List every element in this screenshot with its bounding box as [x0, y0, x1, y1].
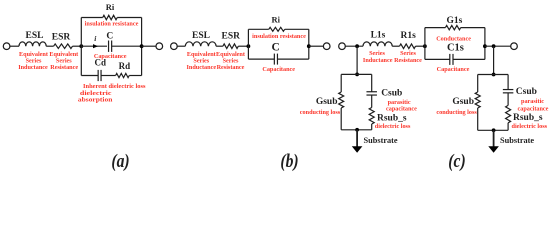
wire — [453, 58, 485, 60]
svg-text:i: i — [94, 34, 97, 43]
resistor G1s (c) — [445, 16, 462, 30]
capacitor C (a) — [106, 32, 113, 52]
annotation: conducting loss (left) — [300, 109, 341, 116]
caption (a) — [111, 149, 129, 171]
wire: right rail (a) — [141, 18, 143, 76]
svg-text:Substrate: Substrate — [364, 136, 398, 145]
wire — [507, 75, 509, 90]
svg-text:ESR: ESR — [52, 32, 71, 42]
junction node (c) box output — [483, 44, 487, 48]
wire: right rail (c) — [484, 28, 486, 60]
junction node: shunt tap left (c) — [355, 44, 359, 48]
svg-text:(c): (c) — [448, 149, 465, 171]
wire: top branch right (b) — [285, 28, 309, 30]
wire: top branch left (a) — [81, 17, 102, 19]
svg-text:L1s: L1s — [371, 31, 386, 41]
wire: shunt feed left (c) — [356, 46, 358, 74]
junction node (a) input — [79, 44, 83, 48]
inductor ESL (a) — [19, 31, 46, 46]
svg-text:Cd: Cd — [95, 58, 107, 68]
annotation: Capacitance (a) — [94, 53, 127, 60]
resistor Gsub left (c) — [316, 92, 344, 108]
annotation: Conductance (c) — [436, 36, 471, 43]
annotation: Equivalent Series Resistance (a) — [49, 51, 79, 71]
annotation: insulation resistance (a) — [85, 20, 139, 27]
resistor ESR (a) — [52, 32, 73, 48]
svg-text:Gsub: Gsub — [452, 97, 474, 107]
annotation: conducting loss (right) — [436, 109, 477, 116]
terminal: circuit (a) left port — [3, 43, 10, 50]
wire: shunt bottom edge left (c) — [341, 129, 372, 131]
wire — [507, 123, 509, 131]
inductor ESL (b) — [185, 31, 216, 46]
svg-text:Csub: Csub — [381, 89, 402, 99]
ground: Substrate left (c) — [352, 130, 398, 153]
capacitor Cd (a) — [95, 58, 107, 81]
capacitor Csub left (c) — [366, 89, 402, 99]
wire: top branch right (c) — [461, 27, 485, 29]
annotation: Capacitance (c) — [437, 66, 470, 73]
svg-text:conducting loss: conducting loss — [436, 109, 477, 116]
wire: top branch right (a) — [117, 17, 141, 19]
wire: top branch left (c) — [425, 27, 446, 29]
svg-text:G1s: G1s — [446, 16, 462, 26]
wire — [477, 75, 479, 93]
caption (b) — [280, 149, 298, 171]
svg-text:capacitance: capacitance — [518, 106, 549, 113]
inductor L1s (c) — [363, 31, 392, 47]
wire: right rail (b) — [308, 29, 310, 59]
annotation: Series Resistance (c) — [394, 50, 422, 64]
resistor Rd (a) — [116, 61, 131, 78]
svg-text:Ri: Ri — [272, 15, 281, 25]
ground: Substrate right (c) — [488, 130, 534, 153]
capacitor Csub right (c) — [503, 87, 537, 97]
annotation: Equivalent Series Inductance (a) — [18, 51, 49, 71]
junction node: shunt tap right (c) — [492, 44, 496, 48]
wire — [142, 45, 157, 47]
svg-text:Substrate: Substrate — [500, 136, 534, 145]
wire: bottom branch left (c) — [425, 58, 450, 60]
caption (c) — [448, 149, 465, 171]
svg-text:insulation resistance: insulation resistance — [252, 33, 306, 40]
resistor Rsub_s left (c) — [369, 108, 407, 125]
svg-text:(a): (a) — [111, 149, 129, 171]
terminal: circuit (c) right port — [511, 43, 518, 50]
wire: left rail (c) — [424, 28, 426, 60]
wire: shunt top edge right (c) — [478, 74, 508, 76]
wire — [340, 108, 342, 130]
resistor Rsub_s right (c) — [506, 105, 543, 123]
wire: top branch left (b) — [248, 28, 268, 30]
terminal: circuit (b) left port — [171, 43, 178, 50]
wire — [129, 75, 141, 77]
junction node: shunt bottom left (c) — [355, 128, 359, 132]
wire — [73, 45, 82, 47]
svg-text:Capacitance: Capacitance — [262, 66, 295, 73]
annotation: insulation resistance (b) — [252, 33, 306, 40]
svg-text:Rsub_s: Rsub_s — [377, 113, 407, 123]
svg-text:ESL: ESL — [192, 31, 210, 41]
wire — [371, 74, 373, 91]
svg-text:Series: Series — [369, 50, 385, 57]
junction node (c) box input — [423, 44, 427, 48]
current arrow i (a) — [93, 34, 98, 48]
wire: shunt bottom edge right (c) — [478, 129, 508, 131]
wire — [216, 45, 223, 47]
wire — [507, 93, 509, 106]
wire — [101, 75, 116, 77]
svg-text:Ri: Ri — [106, 2, 115, 12]
svg-text:capacitance: capacitance — [386, 106, 417, 113]
wire — [345, 45, 363, 47]
wire — [238, 45, 248, 47]
svg-text:Resistance: Resistance — [217, 64, 245, 71]
svg-text:dielectric loss: dielectric loss — [512, 123, 548, 130]
wire — [177, 45, 185, 47]
junction node (b) input — [247, 44, 251, 48]
wire — [485, 45, 511, 47]
svg-text:R1s: R1s — [401, 31, 417, 41]
svg-text:C1s: C1s — [447, 43, 464, 54]
svg-text:Inherent dielectric loss: Inherent dielectric loss — [83, 83, 146, 90]
junction node: shunt top right (c) — [492, 73, 496, 77]
wire — [309, 45, 324, 47]
wire — [371, 95, 373, 107]
capacitor C (b) — [271, 42, 279, 65]
wire — [416, 45, 425, 47]
svg-text:(b): (b) — [280, 149, 298, 171]
annotation: parasitic capacitance (left) — [386, 99, 417, 113]
svg-text:parasitic: parasitic — [521, 98, 544, 105]
svg-text:C: C — [106, 32, 113, 42]
wire: left rail (b) — [247, 29, 249, 59]
wire: bottom branch left (b) — [248, 58, 274, 60]
svg-text:C: C — [271, 42, 279, 54]
junction node (a) output — [140, 44, 144, 48]
resistor Gsub right (c) — [452, 92, 480, 108]
wire — [477, 108, 479, 130]
wire: shunt feed right (c) — [493, 46, 495, 74]
resistor R1s (c) — [400, 31, 417, 49]
wire — [46, 45, 53, 47]
svg-text:Resistance: Resistance — [394, 57, 422, 64]
terminal: circuit (a) right port — [156, 43, 163, 50]
svg-text:Csub: Csub — [516, 87, 537, 97]
resistor Ri (b) — [269, 15, 285, 32]
capacitor C1s (c) — [447, 43, 464, 65]
svg-text:ESR: ESR — [222, 32, 241, 42]
svg-text:Inductance: Inductance — [18, 64, 48, 71]
wire: left rail (a) — [80, 18, 82, 76]
annotation: Series Inductance (c) — [363, 50, 393, 64]
junction node: shunt bottom right (c) — [492, 128, 496, 132]
svg-text:Inductance: Inductance — [187, 64, 217, 71]
wire: bottom branch left (a) — [81, 75, 98, 77]
svg-text:Gsub: Gsub — [316, 97, 338, 107]
wire: mid branch (a) — [81, 45, 107, 47]
svg-text:ESL: ESL — [26, 31, 44, 41]
svg-text:dielectric loss: dielectric loss — [375, 123, 411, 130]
resistor Ri (a) — [103, 2, 118, 20]
wire: shunt top edge left (c) — [341, 73, 372, 75]
annotation: Inherent dielectric loss / dielectric / absorption (a) — [78, 83, 146, 104]
annotation: dielectric loss (right) — [512, 123, 548, 130]
wire — [371, 124, 373, 130]
svg-text:absorption: absorption — [78, 97, 113, 104]
annotation: dielectric loss (left) — [375, 123, 411, 130]
svg-text:Series: Series — [400, 50, 416, 57]
wire — [10, 45, 19, 47]
annotation: Equivalent Series Inductance (b) — [187, 51, 217, 71]
svg-text:conducting loss: conducting loss — [300, 109, 341, 116]
svg-text:Capacitance: Capacitance — [437, 66, 470, 73]
svg-text:Rsub_s: Rsub_s — [513, 113, 543, 123]
junction node (b) output — [307, 44, 311, 48]
resistor ESR (b) — [222, 32, 241, 49]
wire — [392, 45, 399, 47]
wire — [340, 74, 342, 92]
svg-text:Rd: Rd — [119, 61, 131, 71]
wire — [278, 58, 309, 60]
svg-text:insulation resistance: insulation resistance — [85, 20, 139, 27]
svg-text:Inductance: Inductance — [363, 57, 393, 64]
terminal: circuit (b) right port — [323, 43, 330, 50]
annotation: Capacitance (b) — [262, 66, 295, 73]
svg-text:Resistance: Resistance — [50, 64, 78, 71]
annotation: Equivalent Series Resistance (b) — [216, 51, 246, 71]
wire — [112, 45, 142, 47]
terminal: circuit (c) left port — [339, 43, 346, 50]
junction node: shunt top left (c) — [355, 73, 359, 77]
annotation: parasitic capacitance (right) — [518, 98, 549, 113]
